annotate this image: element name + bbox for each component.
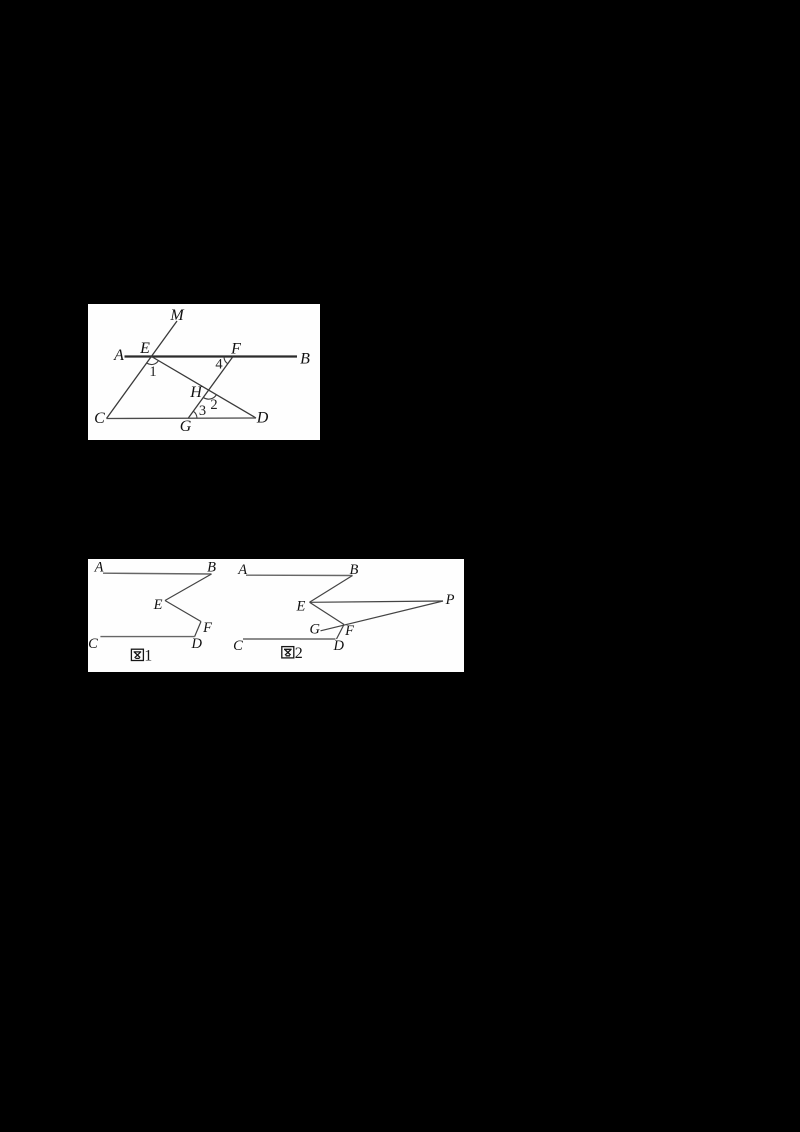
angle arc 1 at E	[147, 361, 159, 365]
fig2 line CD	[243, 638, 336, 640]
figure panel 1	[88, 304, 320, 440]
angle arc 4 at F	[224, 357, 228, 364]
svg-text:M: M	[169, 307, 185, 324]
svg-text:2: 2	[210, 397, 217, 413]
fig2 line EP	[310, 601, 444, 602]
fig1 line AB	[103, 572, 212, 575]
angle arc 2 at H	[203, 395, 216, 399]
fig1 line BE	[165, 574, 212, 601]
angle arc 3 at G	[193, 411, 197, 418]
svg-text:B: B	[207, 559, 216, 575]
svg-text:C: C	[233, 638, 243, 654]
svg-text:A: A	[113, 347, 124, 364]
svg-text:D: D	[256, 410, 269, 427]
svg-text:1: 1	[149, 364, 156, 380]
svg-text:F: F	[202, 620, 212, 636]
svg-text:2: 2	[295, 645, 303, 662]
fig2 caption glyph tu	[282, 647, 294, 658]
fig1 caption glyph tu	[131, 649, 143, 660]
line FG	[188, 357, 233, 419]
line ED	[152, 357, 257, 419]
svg-text:F: F	[344, 623, 354, 639]
line CEM	[107, 321, 178, 419]
fig1 line CD	[100, 636, 194, 638]
figure panel 2	[88, 559, 464, 672]
svg-text:C: C	[88, 636, 98, 652]
svg-text:G: G	[180, 418, 192, 435]
fig2 line EF	[310, 602, 345, 624]
svg-text:E: E	[153, 597, 163, 613]
fig1 line FD	[195, 622, 201, 637]
svg-text:A: A	[237, 562, 247, 578]
fig1 line EF	[165, 601, 201, 622]
line CD	[107, 417, 257, 420]
svg-text:G: G	[309, 622, 320, 638]
line AB	[125, 355, 298, 357]
svg-text:4: 4	[215, 357, 223, 373]
fig2 line GFP	[321, 601, 444, 631]
svg-text:3: 3	[199, 403, 206, 419]
svg-text:F: F	[230, 341, 241, 358]
svg-text:A: A	[94, 559, 104, 575]
svg-text:1: 1	[144, 648, 152, 665]
svg-text:P: P	[445, 592, 455, 608]
fig2 line AB	[246, 574, 353, 576]
svg-text:H: H	[189, 384, 203, 401]
svg-text:D: D	[332, 638, 344, 654]
svg-text:B: B	[349, 562, 358, 578]
fig2 line BE	[310, 576, 353, 603]
svg-text:C: C	[94, 410, 105, 427]
svg-text:D: D	[191, 636, 203, 652]
svg-text:B: B	[300, 351, 310, 368]
svg-text:E: E	[139, 340, 150, 357]
fig2 line FD	[337, 625, 345, 640]
svg-text:E: E	[295, 599, 305, 615]
